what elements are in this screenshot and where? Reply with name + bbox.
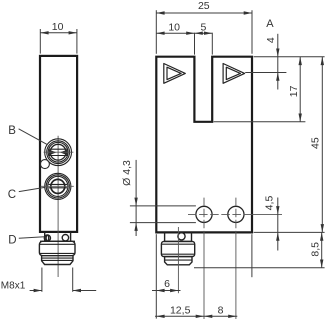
svg-text:25: 25 <box>198 0 210 12</box>
dimension 4,5 : hole axis to bottom edge <box>264 196 280 251</box>
svg-text:A: A <box>266 18 274 30</box>
svg-text:4: 4 <box>265 37 277 43</box>
lens triangle left (emitter) <box>164 64 186 84</box>
screw B (cross slot potentiometer) <box>44 139 74 166</box>
seal tab below screw B <box>40 160 49 169</box>
center axis line of left view <box>57 136 59 277</box>
svg-text:D: D <box>8 234 16 246</box>
svg-text:12,5: 12,5 <box>170 304 191 316</box>
M8 connector side view <box>39 232 75 265</box>
svg-text:B: B <box>8 125 16 137</box>
dimension 17 : top edge to slot bottom <box>288 57 302 122</box>
extension line: fork top edge <box>254 56 325 58</box>
dimension 10 : fork left arm width <box>156 22 194 55</box>
lens triangle right (receiver) <box>223 64 245 84</box>
holes horizontal centerline <box>188 213 252 215</box>
svg-text:45: 45 <box>310 137 322 149</box>
fork body outline <box>156 57 252 233</box>
svg-text:6: 6 <box>164 278 170 290</box>
dimension 25 : fork overall width <box>156 0 252 54</box>
svg-text:Ø 4,3: Ø 4,3 <box>121 160 133 186</box>
extension line: optical axis <box>245 72 286 74</box>
svg-text:5: 5 <box>200 21 206 33</box>
label D with leader line <box>8 234 44 246</box>
dimension M8x1 thread <box>1 268 96 293</box>
dimension 6 : left edge to connector axis <box>152 278 181 292</box>
extension line: thread end <box>194 267 325 269</box>
extension line: fork right edge below <box>251 234 253 277</box>
mounting hole 2 <box>228 198 244 319</box>
extension line: fork bottom edge <box>254 231 325 233</box>
svg-text:C: C <box>8 189 16 201</box>
extension line: slot bottom <box>214 121 306 123</box>
M8 connector front view <box>161 232 194 265</box>
screw C (slotted) <box>41 173 74 199</box>
label C with leader line <box>8 187 45 201</box>
mounting hole 1 <box>196 198 212 319</box>
svg-text:8,5: 8,5 <box>309 242 321 257</box>
dimension diameter 4,3 : mounting holes <box>121 160 196 236</box>
dimension 45 : fork height <box>310 57 324 233</box>
extension line: fork left edge to bottom dims <box>155 234 157 318</box>
dimension 5 : slot width <box>195 21 213 54</box>
svg-text:4,5: 4,5 <box>264 196 276 211</box>
dimension 8,5 : bottom edge to thread end <box>309 232 323 267</box>
svg-text:8: 8 <box>218 304 224 316</box>
front connector centerline <box>177 227 179 293</box>
svg-text:10: 10 <box>52 21 64 33</box>
dimension 4 : top edge to optical axis <box>265 34 280 90</box>
svg-text:M8x1: M8x1 <box>1 281 26 292</box>
left view body outline <box>40 56 77 232</box>
label B with leader line <box>8 125 48 145</box>
dimensions 12,5 and 8 : hole positions <box>155 304 237 318</box>
svg-text:17: 17 <box>288 85 300 97</box>
dimension 10 : left view width <box>40 21 77 54</box>
svg-text:10: 10 <box>168 22 180 34</box>
